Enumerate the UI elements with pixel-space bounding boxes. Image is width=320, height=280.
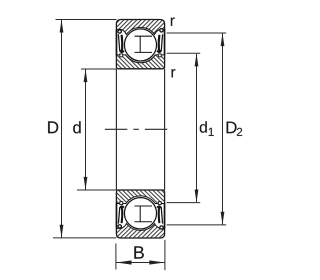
ball [124, 29, 156, 61]
d1 extension line top [167, 52, 201, 54]
label D2 [227, 122, 237, 134]
d dimension line [85, 69, 87, 189]
D extension line top [56, 19, 117, 21]
left side face thick line [116, 29, 118, 55]
left shield anchor circle [118, 30, 121, 33]
d1 arrow bottom [195, 190, 199, 203]
right side face thick line [164, 203, 166, 228]
D2 dimension line [222, 33, 224, 224]
outer ring raceway boundary [116, 27, 164, 34]
d1 arrow top [195, 54, 199, 67]
label D [48, 121, 58, 133]
left shield anchor circle [118, 225, 121, 228]
section outline (outer ring OD + side faces + bore) [116, 20, 164, 69]
inner ring hatched area [116, 55, 164, 69]
outer ring hatched area [116, 20, 164, 35]
d arrow bottom [84, 177, 88, 190]
label r top [171, 18, 175, 26]
B extension line right [164, 240, 166, 271]
B arrow right [149, 260, 164, 264]
ball I-mark [135, 206, 153, 222]
right shield anchor circle [160, 29, 163, 32]
center axis dash-dot line [105, 128, 172, 130]
inner ring raceway boundary [116, 55, 164, 63]
D2 arrow top [221, 33, 225, 46]
shield groove notch right [158, 202, 161, 205]
B arrow left [116, 260, 131, 264]
d1 extension line bottom [167, 202, 201, 204]
right side face thick line [164, 29, 166, 55]
bore edge line left [115, 69, 117, 190]
left shield Z [118, 208, 119, 224]
inner ring raceway boundary [116, 196, 164, 204]
D extension line bottom [53, 237, 116, 239]
shield groove notch left [120, 54, 123, 57]
B extension line left [115, 244, 117, 270]
D arrow bottom [60, 225, 64, 238]
B dimension line [116, 262, 164, 264]
inner ring hatched area [116, 190, 164, 204]
d extension line top [81, 68, 116, 70]
shield groove notch left [120, 202, 123, 205]
d extension line bottom [77, 189, 116, 191]
label d [73, 121, 80, 133]
label B [134, 246, 143, 258]
D dimension line [61, 20, 63, 238]
right shield anchor circle [160, 226, 163, 229]
ball I-mark [135, 36, 153, 52]
d1 dimension line [196, 54, 198, 203]
left side face thick line [116, 203, 118, 228]
outer ring raceway boundary [116, 224, 164, 231]
shield groove notch right [158, 54, 161, 57]
label r bottom [172, 69, 176, 77]
right shield Z [161, 34, 162, 50]
label d1 [200, 121, 207, 133]
D2 extension line top [167, 32, 227, 34]
D2 extension line bottom [167, 224, 227, 226]
section outline [116, 190, 164, 238]
D2 arrow bottom [221, 212, 225, 225]
right shield Z [161, 208, 162, 224]
d arrow top [84, 69, 88, 82]
ball [124, 198, 156, 229]
outer ring hatched area [116, 224, 164, 239]
left shield Z [118, 34, 119, 50]
bore edge line right [164, 69, 166, 190]
D arrow top [60, 20, 64, 33]
